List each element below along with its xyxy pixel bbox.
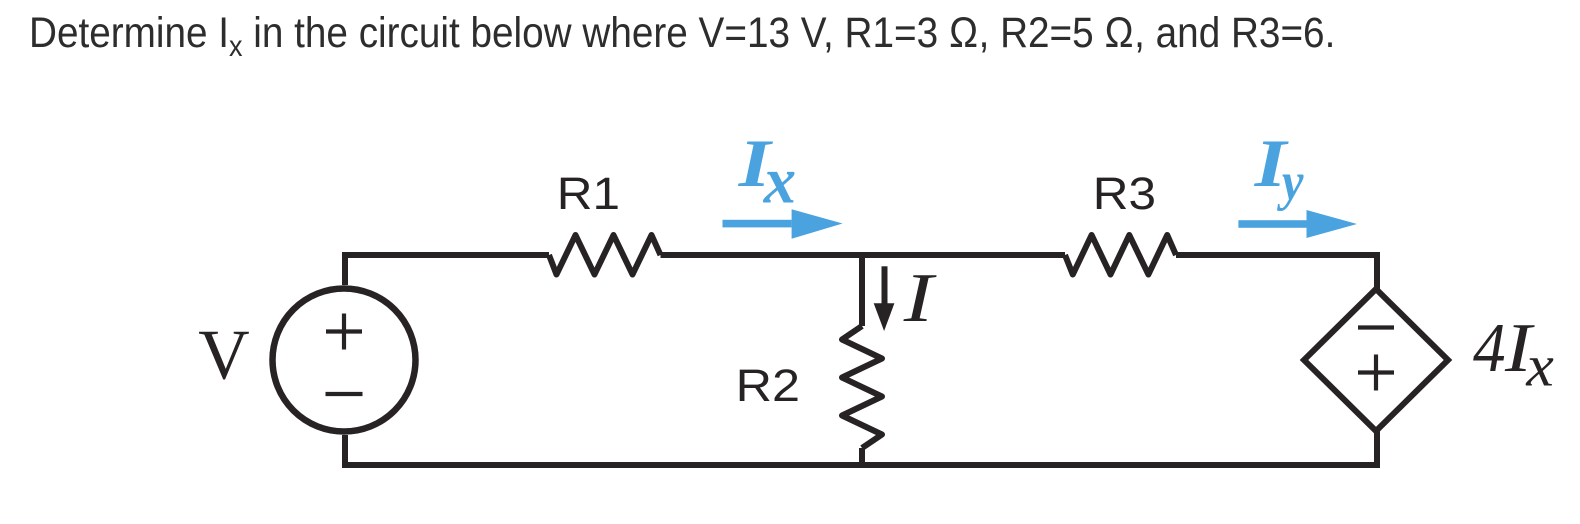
title text: [29, 9, 1335, 58]
svg-text:R1: R1: [557, 169, 620, 219]
svg-text:R3: R3: [1093, 169, 1156, 219]
current arrow I (down): [874, 266, 895, 331]
resistor R2: [842, 326, 882, 448]
minus sign inside source: [326, 392, 363, 396]
svg-text:I: I: [903, 260, 937, 337]
minus sign inside diamond: [1358, 325, 1394, 329]
current arrow Iy: [1238, 210, 1357, 238]
dependent source U1 diamond: [1304, 289, 1448, 431]
svg-text:R2: R2: [736, 361, 800, 411]
plus sign inside diamond: [1358, 355, 1394, 391]
plus sign inside source: [326, 314, 362, 350]
wire top rail left segment: [345, 255, 549, 285]
wire middle branch top: [859, 255, 865, 326]
voltage source V circle: [273, 289, 416, 432]
wire top rail right segment: [1176, 255, 1377, 289]
svg-text:x: x: [1525, 334, 1554, 399]
wire top rail middle segment: [661, 252, 1066, 258]
resistor R3: [1065, 235, 1176, 275]
svg-text:4: 4: [1473, 309, 1506, 386]
wire bottom rail: [345, 431, 1377, 465]
wire middle branch bottom: [859, 448, 865, 465]
svg-text:x: x: [763, 144, 796, 218]
svg-text:V: V: [198, 316, 249, 394]
resistor R1: [549, 235, 661, 275]
current arrow Ix: [723, 209, 843, 238]
